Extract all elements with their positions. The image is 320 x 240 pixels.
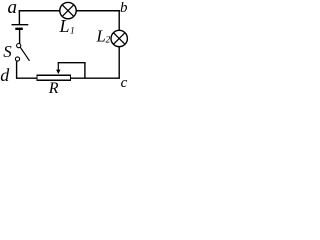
svg-text:L: L [96,26,106,45]
wire top-left (a to lamp L1) [19,10,60,12]
wiper wire vertical down to bottom wire [84,63,86,78]
switch S top contact [17,44,21,48]
svg-text:2: 2 [106,36,111,46]
wire bottom-right (c corner to rheostat) [71,77,120,79]
label L2 [96,26,111,45]
svg-text:L: L [59,16,70,36]
wiper wire horizontal [58,62,86,64]
wire bottom-left (rheostat to corner d) [16,77,37,79]
lamp L2 [111,30,127,46]
svg-text:b: b [120,0,128,16]
wire right upper (b corner down to L2) [118,10,120,31]
svg-text:1: 1 [70,27,75,37]
svg-text:c: c [121,75,128,91]
svg-text:a: a [8,0,18,18]
label L1 [59,16,75,37]
switch S bottom contact [15,57,19,61]
wire switch to battery [19,29,21,44]
svg-text:R: R [48,80,59,97]
lamp L1 [60,2,76,18]
wire top-right (L1 to corner b) [76,10,120,12]
switch S blade [20,47,30,61]
wire battery to top wire [18,10,20,25]
svg-text:d: d [0,65,10,85]
wire left lower (d corner up to switch) [16,61,18,78]
wire right lower (L2 down to corner c) [118,47,120,79]
rheostat wiper arrow [56,63,60,74]
battery positive plate (long thin) [12,24,29,26]
svg-text:S: S [3,42,12,61]
battery negative plate (short thick) [15,28,22,30]
rheostat R body [37,75,71,80]
